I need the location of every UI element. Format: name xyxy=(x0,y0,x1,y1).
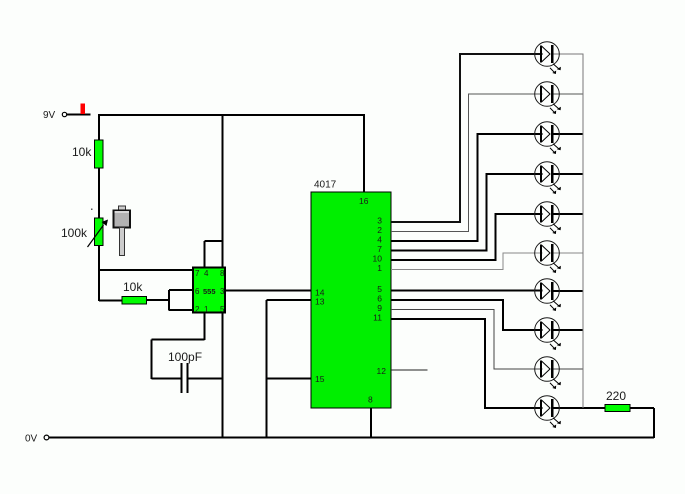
wire 4017 pin15 reset xyxy=(267,378,312,380)
wire LED D7 cathode xyxy=(554,290,584,292)
svg-text:3: 3 xyxy=(377,216,382,226)
svg-text:10k: 10k xyxy=(72,145,92,159)
wire LED D9 cathode xyxy=(554,368,584,370)
op-amp / timer U1 555 xyxy=(193,268,225,313)
resistor R3 220 xyxy=(605,405,630,412)
trimmer tool icon xyxy=(114,206,131,256)
svg-text:9V: 9V xyxy=(43,110,56,121)
wire 4017 pin 10 to LED D5 xyxy=(391,213,543,261)
wire 4017 pin 9 to LED D9 xyxy=(391,309,543,370)
wire 4017 pin 11 to LED D10 xyxy=(391,318,543,409)
wire 4017 pin 5 to LED D7 xyxy=(391,290,543,292)
wire 555 pin1 to C1 xyxy=(152,313,205,380)
wire LED D6 cathode xyxy=(554,252,584,254)
svg-text:12: 12 xyxy=(377,366,387,376)
wire LED D5 cathode xyxy=(554,213,584,215)
resistor R2 10k xyxy=(122,297,147,305)
wire R3 to 0V xyxy=(630,408,654,438)
wire 4017 pin 2 to LED D2 xyxy=(391,93,543,232)
svg-text:15: 15 xyxy=(315,374,325,384)
svg-text:2: 2 xyxy=(195,305,200,314)
wire 555 pin3 output to 4017 pin14 clock xyxy=(225,290,311,292)
svg-text:6: 6 xyxy=(195,287,200,296)
wire 9V to 555 pin8 xyxy=(222,114,224,268)
svg-text:9: 9 xyxy=(377,303,382,313)
svg-text:10k: 10k xyxy=(123,280,143,294)
node 0V terminal xyxy=(25,434,49,445)
wire 9V to 4017 pin16 xyxy=(363,114,365,192)
svg-text:1: 1 xyxy=(377,263,382,273)
wire LED D3 cathode xyxy=(554,133,584,135)
svg-text:4: 4 xyxy=(377,235,382,245)
wire LED D2 cathode xyxy=(554,93,584,95)
wire to R2 xyxy=(99,300,122,302)
wire 555 pin4 to pin8 rail xyxy=(205,241,223,268)
LED D1 xyxy=(535,42,561,74)
svg-text:4: 4 xyxy=(204,269,209,278)
LED D3 xyxy=(535,122,561,154)
LED D4 xyxy=(535,162,561,194)
wire to 555 pin6 xyxy=(169,289,193,291)
LED D2 xyxy=(535,82,561,114)
wire VR1 wiper rail down xyxy=(98,246,100,302)
wire 555 pin5 to 0V xyxy=(222,313,224,439)
svg-text:7: 7 xyxy=(377,244,382,254)
variable resistor VR1 100k xyxy=(88,209,109,248)
svg-text:5: 5 xyxy=(377,284,382,294)
capacitor C1 100pF xyxy=(181,363,189,393)
wire 4017 pin12 stub xyxy=(391,369,428,371)
wire node to 555 pin7 xyxy=(99,269,193,271)
svg-text:10: 10 xyxy=(373,254,383,264)
wire 4017 pin8 to 0V xyxy=(370,408,372,438)
wire 4017 pin 3 to LED D1 xyxy=(391,53,543,223)
wire 9V rail drop to R1 xyxy=(98,114,100,141)
LED D8 xyxy=(535,318,561,350)
svg-text:3: 3 xyxy=(220,287,225,296)
svg-text:11: 11 xyxy=(373,313,382,323)
wire 4017 pin 7 to LED D4 xyxy=(391,173,543,252)
wire LED D1 cathode xyxy=(554,53,584,55)
wire C1 to 555 pin5 ground line xyxy=(189,378,223,380)
resistor R1 10k xyxy=(95,140,104,168)
svg-text:7: 7 xyxy=(195,269,200,278)
svg-text:0V: 0V xyxy=(25,434,38,445)
svg-text:220: 220 xyxy=(606,389,626,403)
svg-text:16: 16 xyxy=(359,196,369,206)
svg-text:6: 6 xyxy=(377,294,382,304)
wire 9V rail xyxy=(98,114,365,116)
svg-text:8: 8 xyxy=(220,269,225,278)
wire to 555 pin2 xyxy=(169,309,193,311)
wire junction bracket 6-2 xyxy=(168,290,170,311)
wire LED D4 cathode xyxy=(554,173,584,175)
svg-text:8: 8 xyxy=(368,395,373,405)
svg-text:100pF: 100pF xyxy=(168,350,202,364)
LED D10 xyxy=(535,396,561,428)
node 9V supply terminal xyxy=(43,104,91,122)
wire LED D8 cathode xyxy=(554,329,584,331)
svg-text:4017: 4017 xyxy=(314,180,337,191)
wire LED cathode column xyxy=(582,54,584,409)
LED D7 xyxy=(535,279,561,311)
wire 4017 pin 6 to LED D8 xyxy=(391,299,543,331)
svg-text:13: 13 xyxy=(315,297,325,307)
IC U2 4017 decade counter xyxy=(311,192,391,408)
wire 4017 pin13 enable to 0V xyxy=(267,300,312,438)
LED D5 xyxy=(535,202,561,234)
svg-text:100k: 100k xyxy=(61,226,88,240)
wire R2 to 555 pins 6,2 xyxy=(147,299,170,301)
wire 0V rail xyxy=(49,437,654,439)
svg-text:555: 555 xyxy=(203,287,216,296)
wire LED D10 cathode xyxy=(554,407,606,409)
LED D9 xyxy=(535,357,561,389)
wire R1 to VR1 xyxy=(98,168,100,218)
wire 4017 pin 4 to LED D3 xyxy=(391,133,543,242)
svg-text:2: 2 xyxy=(377,225,382,235)
wire 4017 pin 1 to LED D6 xyxy=(391,252,543,270)
LED D6 xyxy=(535,241,561,273)
